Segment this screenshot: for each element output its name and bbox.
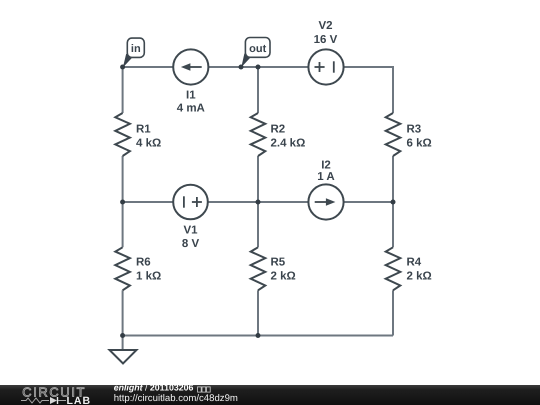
- ground: [110, 350, 137, 364]
- wire top row left: [123, 66, 174, 68]
- resistor R3: [386, 113, 432, 156]
- svg-text:2 kΩ: 2 kΩ: [271, 271, 296, 283]
- svg-text:6 kΩ: 6 kΩ: [407, 138, 432, 150]
- junction dot bottom row middle: [256, 333, 261, 338]
- resistor R1: [115, 113, 161, 156]
- footer tofu boxes: [198, 387, 202, 392]
- svg-text:V1: V1: [183, 225, 198, 237]
- svg-text:2.4 kΩ: 2.4 kΩ: [271, 138, 306, 150]
- svg-text:R4: R4: [407, 257, 422, 269]
- wire top row middle: [209, 66, 309, 68]
- node in junction dot: [120, 65, 125, 70]
- svg-text:R1: R1: [136, 124, 151, 136]
- svg-text:16 V: 16 V: [314, 34, 338, 46]
- svg-text:I1: I1: [186, 90, 196, 102]
- wire ground stub: [122, 336, 124, 351]
- resistor R4: [386, 247, 432, 290]
- junction dot mid row left: [120, 200, 125, 205]
- wire mid row middle: [208, 201, 309, 203]
- wire left column upper: [122, 67, 124, 113]
- svg-text:LAB: LAB: [67, 395, 92, 405]
- svg-text:enlight / 201103206: enlight / 201103206: [114, 382, 194, 392]
- wire middle column upper: [257, 67, 259, 113]
- svg-text:in: in: [131, 43, 141, 55]
- resistor R6: [115, 247, 161, 290]
- svg-text:R6: R6: [136, 257, 151, 269]
- wire left column lower: [122, 290, 124, 335]
- junction dot bottom row left: [120, 333, 125, 338]
- svg-text:4 mA: 4 mA: [177, 103, 205, 115]
- svg-text:R3: R3: [407, 124, 422, 136]
- wire left column mid: [122, 156, 124, 247]
- wire right column lower: [392, 290, 394, 335]
- junction dot mid row middle: [256, 200, 261, 205]
- svg-text:out: out: [249, 43, 266, 55]
- node out junction dot: [239, 65, 244, 70]
- svg-text:R2: R2: [271, 124, 286, 136]
- wire middle column mid: [257, 156, 259, 247]
- svg-text:8 V: 8 V: [182, 238, 200, 250]
- wire bottom row: [123, 335, 393, 337]
- svg-text:1 A: 1 A: [317, 171, 334, 183]
- current source I2: [308, 159, 343, 219]
- svg-text:V2: V2: [318, 20, 332, 32]
- junction dot mid row right: [391, 200, 396, 205]
- svg-text:4 kΩ: 4 kΩ: [136, 138, 161, 150]
- resistor R5: [251, 247, 296, 290]
- voltage source V2: [308, 20, 343, 84]
- logo diode: [50, 397, 57, 404]
- svg-text:http://circuitlab.com/c48dz9m: http://circuitlab.com/c48dz9m: [114, 393, 238, 404]
- wire right column mid: [392, 156, 394, 247]
- junction dot top middle column: [256, 65, 261, 70]
- svg-text:2 kΩ: 2 kΩ: [407, 271, 432, 283]
- logo resistor zigzag: [21, 398, 49, 403]
- node out flag: [241, 38, 270, 68]
- voltage source V1: [173, 185, 208, 250]
- wire mid row left: [123, 201, 174, 203]
- wire mid row right: [344, 201, 394, 203]
- resistor R2: [251, 113, 306, 156]
- wire middle column lower: [257, 290, 259, 335]
- current source I1: [173, 49, 208, 114]
- svg-text:1 kΩ: 1 kΩ: [136, 271, 161, 283]
- wire top row right with corner: [344, 67, 394, 113]
- svg-text:R5: R5: [271, 257, 286, 269]
- node in flag: [123, 38, 144, 67]
- svg-text:I2: I2: [321, 159, 331, 171]
